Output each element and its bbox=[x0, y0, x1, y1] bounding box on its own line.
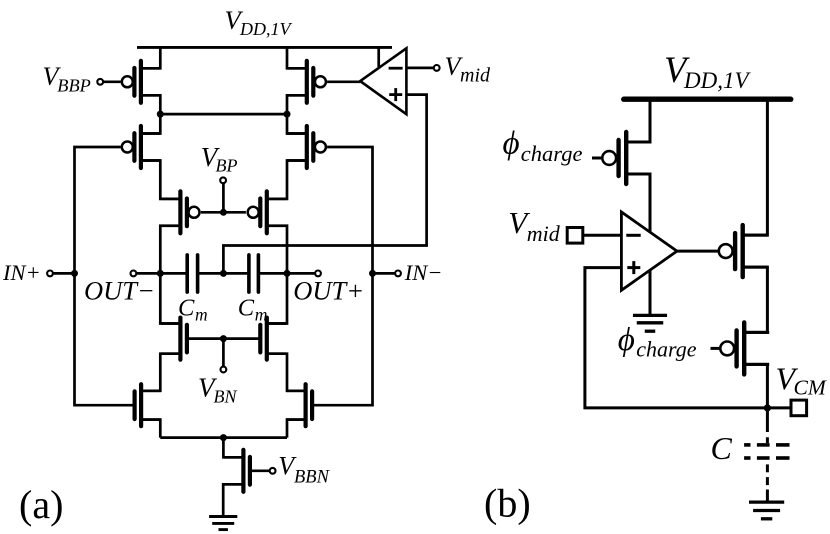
op-amp U1 plus sign bbox=[389, 88, 402, 101]
terminal OUT+ bbox=[287, 271, 321, 277]
wire M11 gate stub bbox=[250, 469, 270, 472]
wire U1 minus input to Vmid terminal bbox=[406, 67, 434, 70]
op-amp U2 bbox=[621, 212, 677, 290]
transistor M3 PMOS cascode left bbox=[122, 126, 161, 168]
wire IN- gate line (M4 gate to M10 gate) bbox=[312, 147, 372, 405]
wire M10 source to tail rail bbox=[287, 420, 306, 438]
label (b) bbox=[484, 481, 531, 526]
label C bbox=[711, 430, 733, 466]
wire MP1 gate stub bbox=[592, 157, 601, 160]
transistor M5 PMOS (VBP) left bbox=[161, 191, 200, 233]
junction IN- on gate line bbox=[369, 270, 376, 277]
wire Cm1 to Cm2 (mid node) bbox=[198, 272, 249, 275]
transistor M4 PMOS cascode right bbox=[287, 126, 326, 168]
svg-text:ϕ: ϕ bbox=[503, 126, 520, 162]
node Vdd label (a) bbox=[225, 5, 293, 39]
label VCM bbox=[776, 360, 827, 399]
wire MP1 drain to op-amp U2 supply bbox=[626, 174, 650, 233]
junction VBN bbox=[220, 335, 227, 342]
svg-text:CM: CM bbox=[794, 376, 827, 400]
wire MP2 source to rail bbox=[743, 99, 768, 235]
transistor M6 PMOS (VBP) right bbox=[248, 191, 287, 233]
wire U1 power stub from rail bbox=[377, 47, 380, 67]
wire node A to node B bbox=[160, 113, 287, 116]
label Cm2 bbox=[238, 295, 268, 325]
transistor M1 PMOS (gate VBBP) bbox=[122, 61, 161, 103]
wire VBP stub bbox=[222, 183, 225, 212]
ground below capacitor C bbox=[749, 502, 784, 519]
junction tail node bbox=[220, 434, 227, 441]
transistor MP2 PMOS follower bbox=[719, 225, 768, 277]
wire: VDD rail of circuit (a) bbox=[137, 46, 392, 49]
wire node B to M4 source bbox=[287, 114, 307, 133]
label IN+ bbox=[2, 260, 41, 285]
svg-text:mid: mid bbox=[460, 65, 491, 87]
node A junction bbox=[157, 111, 164, 118]
op-amp U2 minus sign bbox=[626, 234, 640, 237]
svg-text:OUT+: OUT+ bbox=[293, 276, 364, 306]
terminal OUT- bbox=[131, 271, 161, 277]
terminal Vmid (a) bbox=[434, 65, 440, 71]
capacitor Cm2 bbox=[249, 255, 259, 292]
wire U2 plus input feedback from VCM node bbox=[585, 268, 791, 408]
label Vmid (b) bbox=[508, 205, 561, 246]
wire tail node to M11 drain bbox=[223, 438, 243, 458]
transistor M8 NMOS (VBN) right bbox=[260, 318, 286, 360]
junction VBP bbox=[220, 209, 227, 216]
svg-text:m: m bbox=[195, 305, 208, 325]
wire Cm2 to OUT+ bbox=[258, 272, 287, 275]
svg-text:BBP: BBP bbox=[57, 75, 91, 95]
wire VCM node to capacitor C (solid part) bbox=[766, 408, 769, 432]
label VBBP bbox=[43, 62, 91, 96]
wire rail to MP1 source bbox=[626, 99, 650, 142]
wire tail rail bbox=[160, 436, 287, 439]
op-amp U2 plus sign bbox=[627, 261, 640, 274]
label Vmid (a) bbox=[445, 52, 492, 87]
svg-text:IN−: IN− bbox=[404, 260, 443, 285]
wire VBN stub bbox=[222, 339, 225, 367]
wire cap mid node to op-amp + input bbox=[223, 95, 426, 274]
wire MP3 drain to VCM node bbox=[744, 364, 767, 408]
wire M3 drain to M5 source bbox=[141, 161, 181, 199]
label VBN bbox=[198, 373, 237, 407]
svg-text:C: C bbox=[711, 430, 733, 466]
wire M4 drain to M6 source bbox=[267, 161, 307, 199]
svg-text:charge: charge bbox=[636, 337, 697, 362]
svg-text:DD,1V: DD,1V bbox=[239, 19, 292, 39]
svg-text:C: C bbox=[238, 295, 255, 322]
wire dashes below capacitor C bbox=[766, 464, 769, 500]
wire M9 source to tail rail bbox=[141, 420, 160, 438]
terminal VBN bbox=[221, 367, 227, 373]
wire M8 source to M10 drain bbox=[267, 354, 306, 391]
wire M1 drain to node A bbox=[141, 95, 160, 114]
wire dash above capacitor C bbox=[766, 437, 769, 443]
op-amp U1 minus sign bbox=[389, 67, 403, 70]
ground of op-amp U2 bbox=[633, 315, 667, 331]
wire M5-M6 gate bus bbox=[201, 211, 246, 214]
transistor MP3 PMOS discharge switch bbox=[720, 322, 769, 374]
svg-text:charge: charge bbox=[521, 141, 583, 166]
op-amp U1 (CMFB amp of (a)) bbox=[360, 48, 406, 114]
capacitor C top plate (dashed) bbox=[744, 443, 789, 447]
wire U2 ground stub bbox=[649, 270, 652, 314]
wire MP2 drain to MP3 source bbox=[743, 267, 768, 332]
wire VDD rail of circuit (b) bbox=[624, 97, 791, 102]
terminal VBP bbox=[220, 177, 226, 183]
junction OUT- bbox=[157, 270, 164, 277]
wire M2 drain to node B bbox=[287, 95, 307, 114]
junction IN+ on gate line bbox=[71, 270, 78, 277]
wire M2 source to rail bbox=[287, 47, 307, 68]
wire OUT- to Cm1 bbox=[160, 272, 187, 275]
label Cm1 bbox=[178, 295, 208, 325]
label Vdd (b) bbox=[664, 49, 751, 93]
svg-text:DD,1V: DD,1V bbox=[683, 68, 751, 93]
wire M7-M8 gate bus bbox=[187, 337, 260, 340]
label OUT- bbox=[84, 275, 155, 305]
ground of circuit (a) bbox=[209, 517, 237, 530]
svg-text:(b): (b) bbox=[484, 481, 531, 526]
wire U2 output to MP2 gate bbox=[677, 250, 718, 253]
node B junction bbox=[284, 111, 291, 118]
transistor M10 NMOS right bbox=[286, 384, 312, 426]
svg-text:OUT−: OUT− bbox=[84, 275, 155, 305]
svg-text:IN+: IN+ bbox=[2, 260, 41, 285]
svg-text:BBN: BBN bbox=[294, 468, 331, 488]
svg-text:BN: BN bbox=[214, 387, 238, 407]
wire IN+ gate line (M3 gate to M9 gate) bbox=[75, 147, 135, 405]
capacitor Cm1 bbox=[187, 255, 197, 292]
wire node A to M3 source bbox=[141, 114, 160, 133]
capacitor C bottom plate (dashed) bbox=[744, 456, 789, 460]
transistor M11 NMOS tail (VBBN) bbox=[224, 450, 250, 492]
label VBP bbox=[201, 142, 238, 176]
wire U1 output to M2 gate bbox=[327, 80, 360, 83]
label IN- bbox=[404, 260, 443, 285]
label phi_charge_bar bbox=[618, 322, 697, 362]
wire M5 drain through OUT- to M7 drain bbox=[160, 226, 180, 324]
terminal Vmid square (b) bbox=[567, 228, 583, 244]
transistor M9 NMOS left bbox=[135, 384, 161, 426]
label (a) bbox=[19, 482, 63, 527]
svg-text:mid: mid bbox=[527, 221, 561, 246]
wire M7 source to M9 drain bbox=[141, 354, 181, 391]
wire M6 drain through OUT+ to M8 drain bbox=[267, 226, 287, 324]
wire M11 source to ground bbox=[223, 484, 243, 515]
svg-text:(a): (a) bbox=[19, 482, 63, 527]
junction OUT+ bbox=[284, 270, 291, 277]
svg-text:BP: BP bbox=[216, 156, 238, 176]
transistor MP1 PMOS charge switch bbox=[602, 132, 651, 184]
terminal VCM square bbox=[791, 400, 807, 416]
wire Vmid square to U2 minus input bbox=[583, 234, 622, 237]
terminal IN- bbox=[373, 271, 401, 277]
node VCM junction bbox=[764, 404, 771, 411]
label phi_charge bbox=[503, 126, 583, 167]
label VBBN bbox=[278, 452, 330, 488]
wire MP3 gate stub bbox=[711, 347, 720, 350]
terminal VBBN bbox=[270, 468, 276, 474]
terminal IN+ bbox=[47, 271, 74, 277]
transistor M2 PMOS (gate from op-amp U1) bbox=[287, 61, 326, 103]
wire M1 source to rail bbox=[141, 47, 160, 68]
label OUT+ bbox=[293, 276, 364, 306]
junction cap mid node bbox=[220, 270, 227, 277]
svg-text:ϕ: ϕ bbox=[618, 322, 635, 358]
terminal VBBP bbox=[97, 79, 120, 85]
transistor M7 NMOS (VBN) left bbox=[161, 318, 187, 360]
